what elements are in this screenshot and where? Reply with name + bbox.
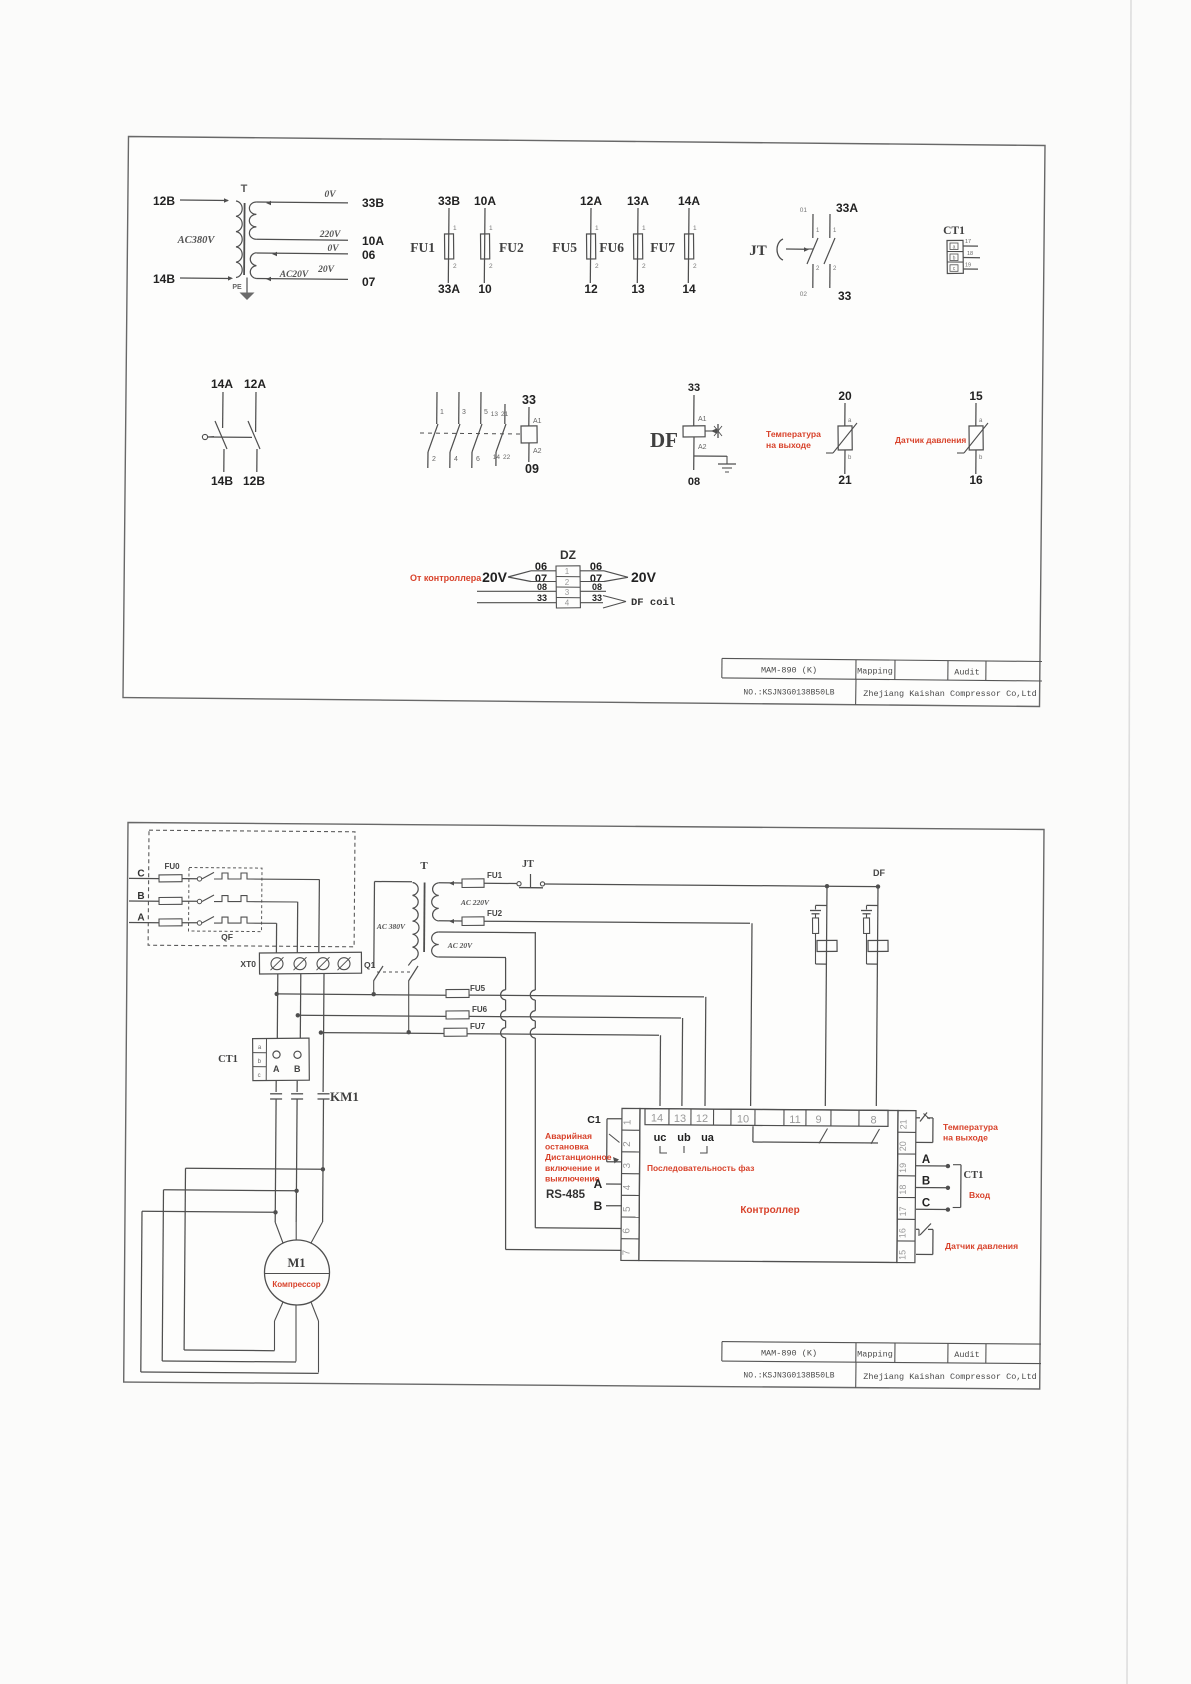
svg-text:FU6: FU6 [599, 240, 624, 255]
svg-text:4: 4 [565, 599, 570, 608]
svg-text:A: A [594, 1177, 603, 1191]
svg-text:FU2: FU2 [499, 240, 524, 255]
svg-text:13: 13 [674, 1113, 686, 1125]
svg-text:B: B [594, 1199, 603, 1213]
svg-text:33: 33 [592, 593, 602, 603]
svg-text:Audit: Audit [954, 1350, 980, 1360]
svg-text:10: 10 [478, 282, 492, 296]
svg-text:14A: 14A [211, 377, 233, 391]
svg-text:5: 5 [622, 1206, 633, 1212]
svg-text:AC 20V: AC 20V [447, 941, 473, 950]
svg-text:15: 15 [969, 389, 983, 403]
svg-text:15: 15 [897, 1250, 907, 1260]
svg-text:1: 1 [440, 409, 444, 416]
svg-text:T: T [241, 183, 248, 195]
svg-text:16: 16 [969, 473, 983, 487]
svg-text:C1: C1 [587, 1114, 601, 1126]
svg-text:DZ: DZ [560, 548, 576, 562]
svg-text:33: 33 [522, 393, 536, 407]
svg-text:B: B [922, 1176, 930, 1188]
svg-text:FU5: FU5 [470, 984, 486, 993]
svg-text:17: 17 [898, 1206, 908, 1216]
svg-text:18: 18 [967, 251, 973, 257]
svg-text:выключение: выключение [545, 1173, 600, 1183]
svg-text:DF: DF [873, 868, 885, 878]
svg-text:JT: JT [522, 859, 534, 870]
svg-text:33: 33 [537, 593, 547, 603]
svg-text:QF: QF [221, 932, 233, 942]
svg-text:08: 08 [537, 582, 547, 592]
svg-text:33B: 33B [438, 194, 460, 208]
svg-text:2: 2 [565, 578, 570, 587]
svg-text:9: 9 [815, 1114, 821, 1126]
svg-text:Zhejiang Kaishan Compressor Co: Zhejiang Kaishan Compressor Co,Ltd [863, 689, 1036, 699]
svg-text:4: 4 [622, 1184, 633, 1190]
svg-text:21: 21 [838, 473, 852, 487]
svg-text:06: 06 [362, 248, 376, 262]
svg-text:10A: 10A [474, 194, 496, 208]
svg-text:A2: A2 [533, 448, 542, 455]
svg-text:uc: uc [654, 1132, 667, 1144]
svg-text:FU5: FU5 [552, 240, 577, 255]
svg-text:11: 11 [789, 1114, 800, 1126]
svg-text:09: 09 [525, 462, 539, 476]
svg-text:KM1: KM1 [330, 1089, 359, 1104]
svg-text:2: 2 [595, 263, 599, 270]
svg-text:0V: 0V [327, 244, 339, 254]
svg-text:CT1: CT1 [943, 225, 965, 237]
svg-text:10: 10 [737, 1113, 749, 1125]
svg-text:NO.:KSJN3G0138B50LB: NO.:KSJN3G0138B50LB [743, 689, 834, 698]
svg-text:33: 33 [838, 289, 852, 303]
svg-text:33B: 33B [362, 196, 384, 210]
svg-text:MAM-890 (K): MAM-890 (K) [761, 666, 817, 676]
svg-text:A1: A1 [533, 418, 542, 425]
svg-text:C: C [922, 1197, 930, 1209]
svg-text:2: 2 [432, 456, 436, 463]
svg-text:Датчик давления: Датчик давления [945, 1241, 1018, 1251]
svg-text:MAM-890 (K): MAM-890 (K) [761, 1349, 817, 1359]
svg-text:20V: 20V [317, 265, 335, 275]
svg-text:14B: 14B [153, 272, 175, 286]
svg-text:b: b [953, 256, 956, 262]
svg-text:19: 19 [898, 1163, 908, 1173]
svg-text:Zhejiang Kaishan Compressor Co: Zhejiang Kaishan Compressor Co,Ltd [863, 1372, 1036, 1382]
svg-text:Audit: Audit [954, 667, 980, 677]
svg-text:12: 12 [584, 282, 598, 296]
svg-text:на выходе: на выходе [943, 1133, 988, 1143]
svg-text:Mapping: Mapping [857, 666, 893, 676]
svg-text:B: B [294, 1064, 301, 1074]
svg-text:14: 14 [493, 454, 501, 461]
svg-text:T: T [420, 860, 428, 872]
svg-text:a: a [953, 245, 956, 251]
svg-text:От контроллера: От контроллера [410, 573, 482, 583]
svg-text:1: 1 [489, 225, 493, 232]
svg-text:1: 1 [565, 567, 570, 576]
svg-text:21: 21 [501, 411, 509, 418]
svg-text:остановка: остановка [545, 1142, 589, 1152]
svg-text:14: 14 [651, 1113, 663, 1125]
svg-text:1: 1 [453, 225, 457, 232]
svg-text:CT1: CT1 [964, 1170, 984, 1181]
svg-text:ub: ub [677, 1132, 691, 1144]
svg-text:Вход: Вход [969, 1190, 991, 1200]
svg-text:A: A [273, 1064, 280, 1074]
svg-text:Контроллер: Контроллер [740, 1205, 799, 1216]
svg-text:RS-485: RS-485 [546, 1189, 586, 1201]
svg-text:220V: 220V [319, 230, 341, 240]
svg-text:08: 08 [592, 582, 602, 592]
svg-text:7: 7 [621, 1249, 632, 1255]
svg-text:Температура: Температура [766, 429, 821, 439]
svg-text:10A: 10A [362, 234, 384, 248]
svg-text:14B: 14B [211, 474, 233, 488]
svg-text:17: 17 [965, 239, 971, 245]
svg-text:33A: 33A [438, 282, 460, 296]
svg-text:02: 02 [800, 291, 808, 298]
svg-text:20V: 20V [482, 569, 508, 585]
svg-text:AC380V: AC380V [177, 235, 216, 246]
svg-text:XT0: XT0 [240, 959, 256, 969]
svg-text:2: 2 [489, 263, 493, 270]
svg-text:0V: 0V [324, 190, 336, 200]
svg-text:ua: ua [701, 1132, 715, 1144]
svg-text:1: 1 [642, 225, 646, 232]
svg-text:3: 3 [565, 588, 570, 597]
svg-text:18: 18 [898, 1185, 908, 1195]
svg-text:C: C [137, 868, 144, 879]
svg-text:на выходе: на выходе [766, 440, 811, 450]
svg-text:M1: M1 [287, 1256, 305, 1270]
svg-text:1: 1 [595, 225, 599, 232]
svg-text:08: 08 [688, 476, 700, 488]
svg-text:1: 1 [693, 225, 697, 232]
svg-text:6: 6 [622, 1228, 633, 1234]
svg-text:DF: DF [650, 428, 678, 452]
svg-text:20: 20 [898, 1141, 908, 1151]
svg-text:14A: 14A [678, 194, 700, 208]
svg-text:CT1: CT1 [218, 1054, 238, 1065]
svg-text:20: 20 [838, 389, 852, 403]
svg-text:19: 19 [965, 263, 971, 269]
svg-text:FU7: FU7 [650, 240, 675, 255]
svg-text:FU6: FU6 [472, 1005, 488, 1014]
svg-text:13: 13 [631, 282, 645, 296]
svg-text:6: 6 [476, 456, 480, 463]
svg-text:07: 07 [362, 275, 376, 289]
svg-text:3: 3 [622, 1163, 633, 1169]
svg-text:DF coil: DF coil [631, 597, 675, 609]
svg-text:A2: A2 [698, 444, 707, 451]
svg-text:5: 5 [484, 409, 488, 416]
svg-text:1: 1 [622, 1119, 633, 1125]
svg-text:8: 8 [870, 1114, 876, 1126]
svg-text:21: 21 [898, 1119, 908, 1129]
svg-text:JT: JT [749, 243, 767, 259]
svg-text:2: 2 [693, 263, 697, 270]
svg-text:AC20V: AC20V [279, 270, 309, 280]
svg-text:12A: 12A [580, 194, 602, 208]
svg-text:33A: 33A [836, 201, 858, 215]
svg-text:Аварийная: Аварийная [545, 1131, 592, 1141]
svg-text:NO.:KSJN3G0138B50LB: NO.:KSJN3G0138B50LB [743, 1372, 834, 1381]
svg-text:14: 14 [682, 282, 696, 296]
svg-text:22: 22 [503, 454, 511, 461]
svg-text:A: A [137, 913, 144, 924]
svg-text:B: B [137, 891, 144, 902]
svg-text:Mapping: Mapping [857, 1349, 893, 1359]
svg-text:4: 4 [454, 456, 458, 463]
svg-text:Дистанционное: Дистанционное [545, 1152, 612, 1162]
svg-text:FU7: FU7 [470, 1022, 486, 1031]
svg-text:AC 220V: AC 220V [460, 898, 490, 907]
svg-text:13A: 13A [627, 194, 649, 208]
svg-text:A: A [922, 1154, 930, 1166]
svg-text:12A: 12A [244, 377, 266, 391]
svg-text:33: 33 [688, 382, 700, 394]
svg-text:AC 380V: AC 380V [376, 922, 406, 931]
svg-text:FU2: FU2 [487, 909, 503, 918]
svg-text:2: 2 [622, 1141, 633, 1147]
svg-text:12: 12 [696, 1113, 708, 1125]
svg-text:FU1: FU1 [487, 871, 503, 880]
svg-text:Последовательность фаз: Последовательность фаз [647, 1163, 754, 1173]
svg-text:2: 2 [642, 263, 646, 270]
svg-text:FU1: FU1 [410, 240, 435, 255]
svg-text:Датчик давления: Датчик давления [895, 435, 966, 445]
svg-text:16: 16 [898, 1228, 908, 1238]
svg-text:12B: 12B [243, 474, 265, 488]
svg-text:2: 2 [453, 263, 457, 270]
svg-text:включение и: включение и [545, 1163, 600, 1173]
svg-text:12B: 12B [153, 194, 175, 208]
svg-text:13: 13 [491, 411, 499, 418]
svg-text:A1: A1 [698, 416, 707, 423]
svg-text:c: c [258, 1073, 261, 1079]
svg-text:FU0: FU0 [164, 862, 180, 871]
svg-text:Температура: Температура [943, 1122, 998, 1132]
svg-text:20V: 20V [631, 569, 657, 585]
svg-text:PE: PE [232, 284, 242, 291]
svg-text:01: 01 [800, 207, 808, 214]
svg-text:Компрессор: Компрессор [272, 1280, 320, 1289]
svg-text:3: 3 [462, 409, 466, 416]
